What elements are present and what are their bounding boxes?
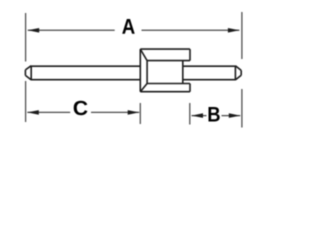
mandrel head cone right <box>235 66 241 81</box>
arrowhead C right <box>128 110 140 115</box>
body left outer edge <box>139 49 141 92</box>
label B <box>208 107 219 122</box>
mandrel stem right <box>183 66 236 80</box>
chamfer bottom left <box>140 84 147 92</box>
body inner top edge <box>147 60 190 62</box>
body bottom outer edge <box>140 91 190 93</box>
mandrel stem left <box>31 66 140 80</box>
label C <box>74 101 88 116</box>
extension line C right <box>139 103 141 124</box>
body inner bottom edge <box>147 83 190 85</box>
arrowhead B right <box>229 113 241 118</box>
rivet body <box>140 49 190 92</box>
extension line left (for A and C) <box>25 13 27 122</box>
label A <box>122 19 135 34</box>
arrowhead B left <box>192 113 204 118</box>
body inner left edge <box>146 61 148 84</box>
body right edge upper <box>189 49 191 61</box>
mandrel tip cone left <box>25 66 31 81</box>
arrowhead A right <box>228 28 240 33</box>
arrowhead C left <box>27 110 39 115</box>
body top outer edge <box>140 48 190 50</box>
dimension line A <box>28 29 240 31</box>
extension line right (for A and B) <box>241 12 243 128</box>
extension line B left <box>189 103 191 125</box>
dimension line B <box>192 115 241 117</box>
body right edge lower <box>189 84 191 92</box>
dimension line C <box>27 111 139 113</box>
flange right edge <box>182 61 184 84</box>
chamfer top left <box>140 49 147 61</box>
arrowhead A left <box>28 28 40 33</box>
